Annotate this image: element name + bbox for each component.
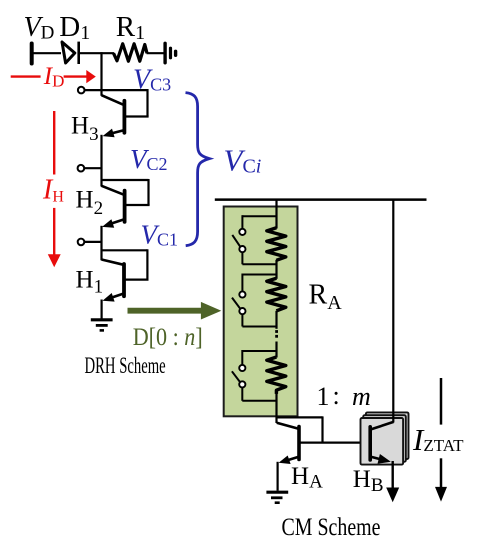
CM top rail wire (215, 198, 427, 201)
wire node 1 (85, 241, 103, 243)
switch S3 (242, 350, 276, 352)
transistor H1 (101, 249, 147, 251)
red current arrow ID (11, 75, 41, 77)
switch S1 (242, 215, 276, 217)
ground H1 (91, 318, 113, 321)
wire resistor to ground (147, 52, 165, 54)
svg-text:1: 1 (317, 382, 330, 411)
transistor H2 (101, 179, 149, 181)
resistor RA1 (267, 228, 286, 260)
resistor R1 (114, 44, 148, 61)
main vertical wire (left chain) (100, 52, 102, 96)
wire HA emitter to ground (277, 462, 279, 491)
svg-text:DRH Scheme: DRH Scheme (85, 353, 166, 378)
wire node 2 (85, 167, 103, 169)
svg-text:D[0 : n]: D[0 : n] (133, 324, 203, 351)
diode D1 (62, 42, 75, 63)
dots ellipsis (275, 330, 278, 333)
transistor H3 (146, 89, 148, 117)
svg-text:CM Scheme: CM Scheme (282, 514, 381, 541)
ground (rotated) right of R1 (163, 43, 166, 63)
svg-text:m: m (352, 382, 371, 411)
resistor RA3 (267, 357, 286, 394)
switch S2 (242, 274, 276, 276)
ground HA (266, 491, 288, 494)
wire VD to diode (33, 52, 61, 54)
wire diode to resistor (79, 52, 114, 54)
node 2 circle (78, 165, 85, 172)
transistor HB multi-emitter stack (366, 412, 409, 459)
green switch-resistor box (224, 207, 298, 417)
RA chain vertical wire (275, 200, 277, 229)
IZTAT annotation arrow (440, 378, 443, 425)
wire node 3 (85, 89, 148, 91)
terminal VD bar (30, 44, 34, 64)
svg-text::: : (333, 381, 340, 410)
node 3 circle (78, 87, 85, 94)
transistor HB symbol (368, 427, 372, 460)
red current arrow IH (53, 111, 55, 175)
brace VCi (186, 93, 210, 246)
node 1 circle (78, 239, 85, 246)
HB emitter output arrow (392, 461, 394, 489)
transistor HA (276, 416, 323, 418)
green bus arrow D[0:n] (128, 308, 203, 314)
HB collector wire from rail (392, 200, 394, 423)
resistor RA2 (267, 278, 286, 311)
